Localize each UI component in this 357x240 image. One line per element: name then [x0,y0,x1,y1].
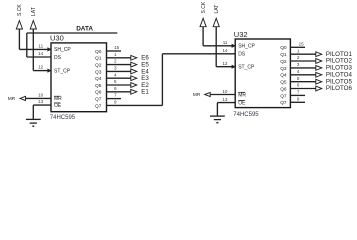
U30 pin 4 wire [107,77,131,79]
svg-text:3: 3 [114,66,117,71]
svg-text:1: 1 [297,48,300,53]
U30 pin 13 number [38,99,44,104]
net label E3 [141,75,149,82]
svg-text:Q0: Q0 [280,45,287,51]
svg-text:5: 5 [297,76,300,81]
wire S.CK to U30 SH_CP [19,29,51,52]
wire U30 OE to ground [33,105,51,119]
U32 pin 5 number [297,76,300,81]
svg-text:Q3: Q3 [95,69,102,75]
U32 pin Q7 name [280,93,287,99]
U30 pin 2 number [114,59,117,64]
power flag arrow S.CK (right) [200,18,206,26]
U30 pin ST_CP name [54,68,71,74]
svg-text:OE: OE [238,100,246,106]
U30 pin Q7 name [95,97,102,103]
U32 pin 10 number [222,89,228,94]
svg-text:7: 7 [114,93,117,98]
svg-text:Q1: Q1 [95,56,102,62]
hier label arrow E1 [131,89,137,94]
U32 pin Q7 name [280,100,287,106]
wire DATA bus [27,32,118,34]
svg-text:MR: MR [238,92,246,98]
U32 pin 1 number [297,48,300,53]
U32 pin Q3 name [280,66,287,72]
U30 pin Q0 name [95,49,102,55]
U30 pin 12 number [38,65,44,70]
U32 pin DS name [238,52,246,58]
svg-text:Q4: Q4 [95,76,102,82]
net label MR (right) [193,92,201,98]
U32 pin 2 wire [290,60,315,62]
svg-text:10: 10 [222,89,228,94]
svg-text:PILOTO6: PILOTO6 [326,85,353,92]
svg-text:14: 14 [38,51,44,56]
U30 pin 1 number [114,52,117,57]
U32 pin 6 wire [290,88,315,90]
wire LAT to U32 ST_CP [216,27,236,69]
U32 pin 7 number [297,90,300,95]
svg-text:Q4: Q4 [280,73,287,79]
U32 pin Q2 name [280,59,287,65]
svg-text:ST_CP: ST_CP [54,68,71,74]
svg-text:S.CK: S.CK [17,4,23,16]
U30 pin 14 number [38,51,44,56]
U32 pin OE name [238,100,246,106]
net label PILOTO5 [326,78,353,85]
U32 pin Q5 name [280,80,287,86]
net label S.CK (right, rotated) [201,1,207,13]
svg-text:4: 4 [114,72,117,77]
hier label arrow PILOTO2 [316,59,322,64]
svg-text:Q7: Q7 [280,100,287,106]
U32 pin Q4 name [280,73,287,79]
net label PILOTO2 [326,58,353,65]
svg-text:SH_CP: SH_CP [238,44,255,50]
svg-text:15: 15 [299,41,305,46]
svg-text:74HC595: 74HC595 [50,115,76,121]
U32 pin 2 number [297,55,300,60]
wire LAT to U30 ST_CP [33,29,51,73]
svg-text:Q6: Q6 [280,86,287,92]
U32 pin 14 number [222,48,228,53]
net label PILOTO4 [326,72,353,79]
U30 pin 9 number [114,100,117,105]
U32 pin 15 stub wire [290,46,305,48]
U30 pin 2 wire [107,64,131,66]
svg-text:9: 9 [114,100,117,105]
svg-text:DATA: DATA [76,25,93,32]
net label PILOTO6 [326,85,353,92]
svg-text:13: 13 [38,99,44,104]
U32 pin 4 wire [290,74,315,76]
hier label arrow PILOTO6 [316,86,322,91]
U30 pin 3 number [114,66,117,71]
U30 pin 5 wire [107,84,131,86]
U30 pin 1 wire [107,57,131,59]
svg-text:LAT: LAT [31,7,37,16]
svg-text:15: 15 [114,45,120,50]
U30 pin Q4 name [95,76,102,82]
U32 pin 1 wire [290,53,315,55]
svg-text:Q1: Q1 [280,52,287,58]
hier label arrow E6 [131,55,137,60]
power flag arrow S.CK (left) [16,21,22,29]
svg-text:Q5: Q5 [95,83,102,89]
svg-text:3: 3 [297,62,300,67]
chip U30 refdes [50,34,64,43]
U30 pin Q7 name [95,103,102,109]
chip U30 body [51,43,107,112]
U30 pin Q6 name [95,90,102,96]
U30 pin 5 number [114,79,117,84]
wire MR to U32 pin 10 [210,94,235,96]
U30 pin 15 stub wire [107,50,122,52]
U32 pin SH_CP name [238,44,255,50]
wire U32 OE to ground [217,103,235,117]
wire U30 Q7' to U32 DS (cascade) [107,54,236,106]
U32 pin 13 number [222,97,228,102]
U30 pin 6 wire [107,91,131,93]
wire MR to U30 pin 10 [26,97,52,99]
svg-text:Q6: Q6 [95,90,102,96]
svg-text:MR: MR [193,92,201,98]
svg-text:13: 13 [222,97,228,102]
net label E6 [141,55,149,62]
power flag arrow LAT (left) [30,21,36,29]
svg-text:11: 11 [223,40,228,45]
input arrow MR (right) [205,92,211,96]
net label DATA [76,25,93,32]
U32 pin 5 wire [290,81,315,83]
net label E2 [141,82,149,89]
svg-text:MR: MR [8,96,16,102]
U32 pin Q1 name [280,52,287,58]
U30 pin Q3 name [95,69,102,75]
U32 pin 4 number [297,69,300,74]
U30 pin 6 number [114,86,117,91]
U30 pin Q5 name [95,83,102,89]
U30 pin MR name [54,96,62,102]
hier label arrow E5 [131,62,137,67]
svg-text:Q7: Q7 [95,103,102,109]
svg-text:74HC595: 74HC595 [233,112,259,118]
U32 pin 12 number [222,61,228,66]
power flag arrow LAT (right) [213,18,219,26]
U32 pin 15 number [299,41,305,46]
U32 pin 9 number [297,96,300,101]
svg-text:SH_CP: SH_CP [54,47,71,53]
net label S.CK (left, rotated) [17,4,23,16]
net label MR (left) [8,96,16,102]
U32 pin 3 wire [290,67,315,69]
svg-text:2: 2 [114,59,117,64]
svg-text:2: 2 [297,55,300,60]
U30 pin SH_CP name [54,47,71,53]
hier label arrow E4 [131,69,137,74]
svg-text:7: 7 [297,90,300,95]
wire DATA to U30 DS [27,33,51,57]
net label E1 [141,89,149,96]
U30 pin OE name [54,103,62,109]
svg-text:10: 10 [38,93,44,98]
U32 pin 7 stub wire [290,94,305,96]
svg-text:S.CK: S.CK [201,1,207,13]
svg-text:Q2: Q2 [280,59,287,65]
U32 pin Q6 name [280,86,287,92]
svg-text:DS: DS [238,52,246,58]
svg-text:9: 9 [297,96,300,101]
net label PILOTO3 [326,65,353,72]
svg-text:OE: OE [54,103,62,109]
U30 pin 3 wire [107,70,131,72]
svg-text:U32: U32 [234,30,248,39]
hier label arrow PILOTO1 [316,52,322,57]
wire S.CK to U32 SH_CP [203,27,236,48]
svg-text:4: 4 [297,69,300,74]
U30 pin 7 stub wire [107,98,122,100]
U30 pin Q1 name [95,56,102,62]
U32 pin 3 number [297,62,300,67]
net label E5 [141,62,149,69]
U30 pin 15 number [114,45,120,50]
hier label arrow E2 [131,83,137,88]
U30 pin 4 number [114,72,117,77]
svg-text:11: 11 [38,44,43,49]
chip U30 value 74HC595 [50,115,76,121]
U30 pin DS name [54,55,62,61]
chip U32 body [235,39,290,108]
svg-text:Q7: Q7 [280,93,287,99]
svg-text:5: 5 [114,79,117,84]
svg-text:6: 6 [297,83,300,88]
hier label arrow PILOTO4 [316,72,322,77]
svg-text:6: 6 [114,86,117,91]
svg-text:E1: E1 [141,89,149,96]
net label E4 [141,68,149,75]
net label LAT (left, rotated) [31,7,37,16]
U30 pin 7 number [114,93,117,98]
svg-text:Q5: Q5 [280,80,287,86]
U30 pin 11 number [38,44,43,49]
svg-text:12: 12 [222,61,228,66]
svg-text:Q2: Q2 [95,63,102,69]
svg-text:12: 12 [38,65,44,70]
hier label arrow E3 [131,76,137,81]
svg-text:ST_CP: ST_CP [238,65,255,71]
svg-text:Q7: Q7 [95,97,102,103]
svg-text:14: 14 [222,48,228,53]
hier label arrow PILOTO3 [316,66,322,71]
svg-text:DS: DS [54,55,62,61]
U32 pin 9 stub wire [290,101,305,103]
U30 pin Q2 name [95,63,102,69]
svg-text:LAT: LAT [214,5,220,14]
chip U32 value 74HC595 [233,112,259,118]
hier label arrow PILOTO5 [316,79,322,84]
U32 pin 6 number [297,83,300,88]
svg-text:U30: U30 [50,34,64,43]
ground symbol (left) [26,119,41,126]
U30 pin 10 number [38,93,44,98]
svg-text:1: 1 [114,52,117,57]
svg-text:MR: MR [54,96,62,102]
net label PILOTO1 [326,51,353,58]
ground symbol (right) [210,116,225,123]
net label LAT (right, rotated) [214,5,220,14]
input arrow MR (left) [20,96,26,100]
U32 pin Q0 name [280,45,287,51]
U32 pin ST_CP name [238,65,255,71]
svg-text:Q3: Q3 [280,66,287,72]
chip U32 refdes [234,30,248,39]
U32 pin MR name [238,92,246,98]
svg-text:Q0: Q0 [95,49,102,55]
U32 pin 11 number [223,40,228,45]
